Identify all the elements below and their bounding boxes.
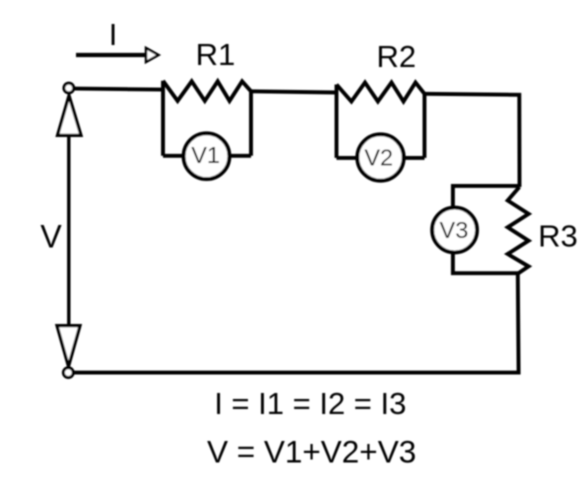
svg-text:I = I1 = I2 = I3: I = I1 = I2 = I3 xyxy=(214,386,406,421)
svg-text:V: V xyxy=(40,219,62,255)
svg-text:I: I xyxy=(109,17,118,52)
svg-text:R2: R2 xyxy=(376,39,416,74)
svg-text:V1: V1 xyxy=(191,142,220,168)
svg-text:R3: R3 xyxy=(538,219,578,254)
svg-text:V2: V2 xyxy=(364,145,393,171)
svg-text:R1: R1 xyxy=(196,37,236,72)
svg-text:V3: V3 xyxy=(440,217,469,243)
svg-text:V = V1+V2+V3: V = V1+V2+V3 xyxy=(207,433,416,469)
